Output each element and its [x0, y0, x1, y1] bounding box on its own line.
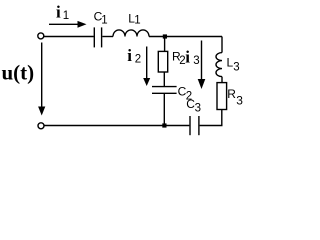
- resistor R3: [217, 83, 227, 110]
- inductor L1: [113, 30, 149, 37]
- label i1: [56, 3, 69, 23]
- svg-text:i: i: [56, 3, 61, 22]
- label R2: [172, 50, 186, 67]
- svg-text:3: 3: [195, 102, 201, 114]
- wire: top-right corner down to L3: [221, 37, 223, 53]
- label C3: [186, 97, 201, 114]
- label R3: [227, 87, 243, 108]
- label i3: [185, 48, 199, 68]
- capacitor C1: [94, 27, 101, 47]
- source arrow u(t): [38, 43, 45, 116]
- wire: L1 to top-right corner: [149, 36, 222, 38]
- wire: L3 to R3: [221, 77, 223, 83]
- svg-text:3: 3: [233, 61, 239, 73]
- resistor R2: [158, 51, 167, 72]
- current arrow i1: [49, 21, 87, 28]
- wire: R3 down and left to C3: [200, 110, 222, 126]
- svg-text:R: R: [227, 87, 236, 101]
- label C1: [94, 10, 108, 27]
- terminal: top input: [38, 33, 44, 39]
- wire: C2 down to node B: [163, 94, 165, 124]
- svg-text:u(t): u(t): [2, 61, 35, 85]
- label i2: [127, 46, 141, 66]
- terminal: bottom input: [38, 123, 44, 129]
- current arrow i2: [143, 47, 150, 87]
- label L3: [227, 55, 240, 73]
- wire: node A down to R2: [164, 37, 166, 51]
- label L1: [128, 12, 141, 27]
- wire: R2 to C2: [163, 72, 165, 86]
- label u(t): [2, 61, 35, 85]
- inductor L3: [216, 53, 222, 77]
- junction node B (bottom of middle branch): [162, 123, 166, 127]
- wire: top input to C1: [44, 36, 94, 38]
- svg-text:1: 1: [63, 10, 69, 22]
- wire: C1 to L1: [102, 36, 113, 38]
- current arrow i3: [198, 41, 206, 90]
- svg-text:3: 3: [193, 55, 199, 67]
- svg-text:3: 3: [236, 94, 243, 108]
- junction node A (top of middle branch): [163, 34, 167, 38]
- wire: C3 to bottom input terminal: [44, 125, 189, 127]
- capacitor C3: [190, 116, 199, 135]
- label C2: [178, 84, 193, 102]
- svg-text:1: 1: [101, 14, 107, 26]
- svg-text:i: i: [127, 46, 132, 65]
- svg-text:i: i: [185, 48, 190, 67]
- svg-text:1: 1: [134, 14, 140, 26]
- svg-text:2: 2: [135, 54, 141, 66]
- capacitor C2: [152, 87, 177, 94]
